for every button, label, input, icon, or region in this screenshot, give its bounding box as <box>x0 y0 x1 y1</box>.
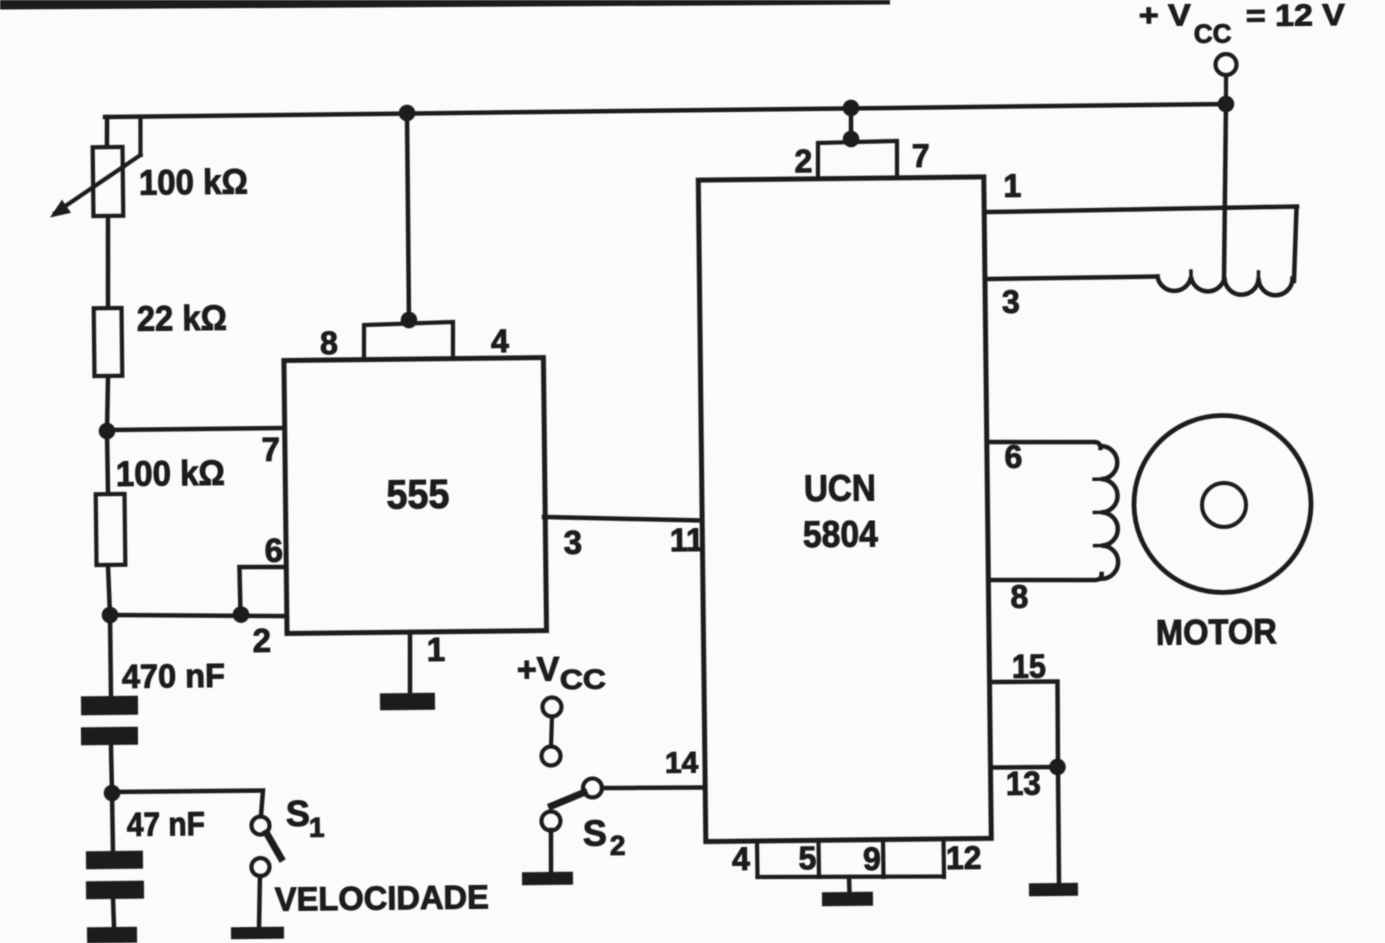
wire S1 to ground <box>258 876 260 927</box>
svg-text:1: 1 <box>427 631 446 668</box>
UCN pin 12 stub <box>941 840 946 876</box>
switch S1 top contact <box>251 816 269 834</box>
svg-text:CC: CC <box>1194 19 1232 49</box>
svg-text:7: 7 <box>261 431 280 468</box>
+Vcc feed terminal lower <box>541 746 560 765</box>
svg-text:6: 6 <box>264 532 283 569</box>
svg-text:100 kΩ: 100 kΩ <box>116 454 225 494</box>
motor M1 body <box>1133 414 1312 593</box>
switch S2 lower contact <box>541 811 560 830</box>
wire R2 to node A <box>106 378 108 431</box>
svg-text:6: 6 <box>1004 439 1022 475</box>
wire C1 to node C <box>111 745 112 793</box>
ground (below S1) <box>231 927 284 940</box>
wire node C to switch S1 <box>112 790 263 817</box>
switch S2 pole contact <box>583 778 602 797</box>
wire +Vcc center tap down to winding <box>1222 104 1228 282</box>
potentiometer R1 100 kΩ body <box>93 147 124 216</box>
wire UCN pin 1 to motor winding <box>988 207 1297 213</box>
wire pin 13 node to ground <box>1058 767 1060 883</box>
switch S1 bottom contact <box>251 858 269 876</box>
wire rail down to pot branch <box>104 117 109 145</box>
svg-text:3: 3 <box>564 524 583 561</box>
wire 555 pin 6 loop <box>239 567 284 614</box>
resistor R2 22 kΩ <box>94 308 123 376</box>
UCN pin 5 stub <box>816 841 821 877</box>
svg-text:VELOCIDADE: VELOCIDADE <box>275 879 489 918</box>
svg-text:UCN: UCN <box>804 467 876 510</box>
node A (junction to 555 pin 7) <box>99 423 116 440</box>
svg-text:12: 12 <box>946 840 982 876</box>
svg-text:8: 8 <box>1010 579 1028 615</box>
node pin6/pin2 junction <box>233 606 250 623</box>
wire pins 4-5-9-12 common bar <box>758 875 945 879</box>
svg-text:S: S <box>286 793 310 834</box>
wire 555 pin 3 to UCN pin 11 <box>544 515 701 522</box>
potentiometer R1 wiper arrowhead <box>50 200 71 218</box>
svg-text:2: 2 <box>253 622 272 659</box>
svg-text:555: 555 <box>386 471 450 518</box>
svg-text:15: 15 <box>1012 648 1046 685</box>
wire UCN pin 6 to winding L2 <box>988 441 1100 449</box>
svg-text:11: 11 <box>670 522 704 558</box>
node pin15/pin13 junction <box>1049 759 1066 776</box>
wire UCN pin 3 to motor winding <box>988 277 1157 280</box>
resistor R3 100 kΩ <box>96 494 126 565</box>
svg-text:= 12 V: = 12 V <box>1246 0 1346 33</box>
wire node B to 555 pin 2 <box>110 613 284 618</box>
svg-text:1: 1 <box>309 812 325 843</box>
svg-text:8: 8 <box>320 325 338 361</box>
wire R3 to node B <box>108 567 110 615</box>
UCN pins 2-7 supply bridge <box>818 141 898 176</box>
svg-text:13: 13 <box>1006 765 1041 802</box>
switch S1 blade <box>266 833 280 858</box>
svg-text:5804: 5804 <box>803 513 879 556</box>
wire rail to 555 supply <box>407 113 410 320</box>
svg-text:2: 2 <box>794 143 812 179</box>
+Vcc supply terminal <box>1215 54 1236 75</box>
wire C2 to ground <box>113 899 114 927</box>
switch S2 blade <box>551 792 584 806</box>
svg-text:MOTOR: MOTOR <box>1156 613 1277 653</box>
svg-text:100 kΩ: 100 kΩ <box>139 163 248 203</box>
wire UCN pin 13 <box>991 765 1057 770</box>
wire node A to 555 pin 7 <box>107 428 284 430</box>
ground (below C2) <box>87 927 137 943</box>
capacitor C2 47 nF <box>86 851 143 870</box>
UCN pin 9 stub <box>881 841 886 877</box>
node top of 555 pin 8-4 bridge <box>401 312 418 329</box>
ground (below S2) <box>522 872 573 886</box>
node B (junction to 555 pin 2) <box>102 607 119 624</box>
svg-text:1: 1 <box>1003 168 1021 204</box>
wire node A to R3 <box>105 431 110 492</box>
op-amp/timer U1 555 body <box>284 358 547 634</box>
+Vcc feed terminal upper <box>542 697 561 716</box>
svg-text:4: 4 <box>732 841 750 877</box>
UCN pin 4 stub <box>755 841 760 877</box>
svg-text:14: 14 <box>665 747 699 780</box>
wire winding right end up <box>1293 207 1297 281</box>
motor winding L2 (right side) <box>1100 446 1118 579</box>
svg-text:22 kΩ: 22 kΩ <box>137 299 227 339</box>
potentiometer R1 wiper arm from rail <box>138 118 143 155</box>
ground (UCN pins 4-5-9-12) <box>822 892 873 907</box>
svg-text:2: 2 <box>610 830 626 861</box>
node rail / UCN supply junction <box>843 100 860 117</box>
svg-text:7: 7 <box>912 138 930 174</box>
node top of UCN pin 2-7 bridge <box>843 131 860 148</box>
wire pot to R2 <box>107 218 109 306</box>
svg-text:4: 4 <box>491 323 509 359</box>
svg-text:+ V: + V <box>1139 0 1192 33</box>
svg-text:9: 9 <box>863 841 881 877</box>
wire +Vcc link <box>551 717 553 747</box>
wire winding L2 to UCN pin 8 <box>990 574 1102 581</box>
motor winding L2 cusp ticks <box>1094 477 1101 481</box>
node +Vcc rail / terminal junction <box>1218 96 1235 113</box>
555 pins 8-4 supply bridge <box>364 322 454 357</box>
driver U2 UCN5804 body <box>698 177 991 842</box>
wire S2 to ground <box>548 830 553 872</box>
wire 555 pin 1 to ground <box>409 632 410 694</box>
svg-text:S: S <box>583 813 607 854</box>
motor M1 shaft <box>1202 483 1246 527</box>
node C (junction to S1) <box>104 785 121 802</box>
motor winding L1 cusp ticks <box>1189 271 1193 278</box>
capacitor C1 470 nF <box>81 696 138 716</box>
svg-text:+V: +V <box>517 651 560 689</box>
wire node B to C1 <box>110 615 111 696</box>
svg-text:470 nF: 470 nF <box>122 657 225 695</box>
svg-text:3: 3 <box>1002 284 1020 320</box>
wire S2 to UCN pin 14 <box>602 787 705 789</box>
wire rail to UCN supply <box>848 108 853 140</box>
node rail / 555 supply junction <box>399 105 416 122</box>
svg-text:CC: CC <box>560 663 606 695</box>
wire common bar to ground stem <box>847 877 852 893</box>
ground (pin 13) <box>1029 883 1078 897</box>
svg-text:47 nF: 47 nF <box>127 805 205 843</box>
ground (555 pin 1) <box>380 693 435 711</box>
svg-text:5: 5 <box>798 840 816 876</box>
wire +Vcc top rail <box>105 104 1226 117</box>
wire UCN pin 15 loop <box>990 681 1058 767</box>
wire node C to C2 <box>110 793 115 851</box>
motor winding L1 (top, center-tapped) <box>1158 275 1293 297</box>
